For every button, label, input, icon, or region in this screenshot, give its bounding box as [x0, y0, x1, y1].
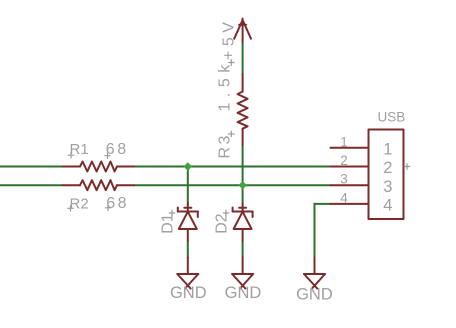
- svg-text:1: 1: [383, 141, 392, 159]
- svg-text:USB: USB: [378, 110, 406, 125]
- svg-text:GND: GND: [296, 286, 333, 304]
- svg-text:GND: GND: [170, 284, 207, 302]
- svg-text:3: 3: [383, 178, 392, 196]
- svg-text:1: 1: [340, 134, 348, 149]
- svg-text:4: 4: [383, 197, 392, 215]
- svg-text:R1: R1: [70, 141, 89, 158]
- svg-text:2: 2: [383, 159, 392, 177]
- svg-text:D1: D1: [160, 213, 177, 234]
- svg-text:+5V: +5V: [220, 18, 237, 60]
- svg-text:R3: R3: [217, 133, 234, 158]
- svg-text:2: 2: [340, 153, 348, 168]
- svg-text:R2: R2: [70, 196, 89, 213]
- svg-text:3: 3: [340, 172, 348, 187]
- svg-text:1.5k: 1.5k: [217, 59, 234, 111]
- svg-text:68: 68: [106, 195, 129, 212]
- svg-text:D2: D2: [214, 213, 231, 234]
- svg-text:68: 68: [106, 141, 129, 158]
- svg-text:4: 4: [340, 190, 348, 205]
- svg-text:GND: GND: [225, 284, 262, 302]
